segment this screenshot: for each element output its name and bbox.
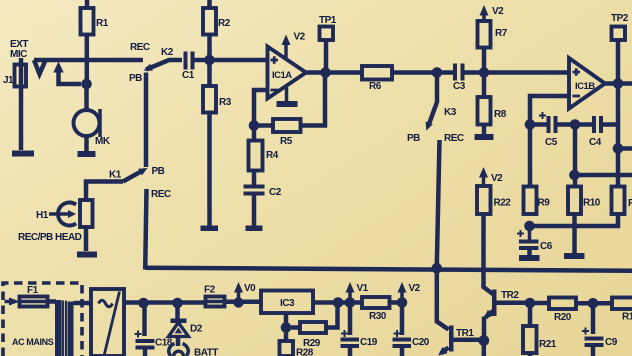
transistor TR1 (437, 268, 479, 356)
svg-text:IC1A: IC1A (272, 70, 292, 81)
svg-text:MK: MK (95, 136, 111, 147)
wire: IC3 adj pin down (284, 313, 289, 328)
svg-text:R10: R10 (583, 198, 601, 209)
wire: junction to C5 (530, 122, 547, 127)
svg-text:PB: PB (129, 73, 142, 84)
node: C5 left junction (525, 119, 536, 130)
node: IC1B output (613, 78, 624, 89)
wire: rectifier output to F2 (124, 300, 206, 305)
capacitor C4 (589, 116, 603, 148)
node: feedback node (249, 120, 260, 131)
wire: R2 bottom lead (207, 35, 212, 61)
wire: R7 to signal line (482, 48, 487, 73)
resistor R19 (612, 298, 632, 323)
wire: K2 PB contact drop to K1 PB (144, 73, 149, 168)
node: V2 (397, 297, 408, 308)
resistor R7 (478, 21, 508, 48)
resistor R8 (478, 97, 507, 125)
power arrow V2 at IC1A (282, 32, 306, 59)
resistor R5 (273, 119, 301, 147)
ground: C6 (519, 255, 540, 261)
node: D2 junction (172, 298, 183, 309)
resistor R3 (203, 86, 232, 113)
svg-text:REC: REC (130, 42, 150, 53)
svg-text:AC MAINS: AC MAINS (12, 337, 54, 347)
node: IC1A output (320, 67, 331, 78)
power arrow V2 at R22 (479, 167, 503, 186)
transformer T1 (55, 300, 74, 356)
test point TP1 (319, 15, 337, 40)
wire: R8 to ground (482, 125, 487, 135)
AC mains enclosure (dashed) (3, 283, 82, 356)
wire: C4 C5 junction down to R10 (573, 125, 578, 187)
capacitor C19 (341, 303, 378, 356)
svg-text:R28: R28 (296, 348, 314, 356)
resistor R21 (523, 326, 557, 356)
svg-text:V2: V2 (491, 173, 503, 184)
wire: R10 to ground (572, 214, 577, 253)
wire: head top to K1 (86, 182, 123, 201)
resistor R1 (81, 8, 109, 35)
ground: head (77, 252, 97, 258)
svg-text:PB: PB (407, 133, 420, 144)
voltage regulator IC3 (261, 291, 313, 314)
svg-text:R22: R22 (494, 198, 512, 209)
svg-text:R9: R9 (538, 198, 551, 209)
capacitor C9 (582, 303, 618, 356)
svg-text:V2: V2 (294, 32, 306, 43)
wire: IC1B output down to R11 (616, 84, 621, 187)
wire: R2 top lead (207, 0, 212, 8)
svg-text:V2: V2 (492, 6, 504, 17)
svg-text:V1: V1 (357, 283, 369, 294)
wire: R10 node to right edge (575, 173, 632, 178)
wire: R6 to C3 (392, 70, 453, 75)
svg-text:F1: F1 (27, 285, 39, 296)
resistor R30 (350, 297, 402, 322)
node: R29 R28 junction (281, 322, 292, 333)
node: C5 C4 junction (570, 119, 581, 130)
wire: IC3 output (313, 300, 350, 305)
resistor R29 (286, 303, 338, 349)
wire: emitter junction to bottom (482, 341, 487, 356)
wire: K3 REC contact to bus (437, 140, 440, 266)
wire: C2 to ground (252, 196, 257, 227)
svg-text:R21: R21 (539, 339, 557, 350)
wire: F1 to transformer (48, 299, 57, 304)
power arrow V2 at rail (398, 282, 421, 299)
resistor R11 (612, 187, 632, 215)
wire: node to IC1A noninverting input (210, 58, 268, 63)
resistor R4 (249, 141, 279, 171)
svg-text:TP1: TP1 (319, 15, 337, 26)
capacitor C3 (453, 64, 466, 93)
diode D2 (169, 303, 203, 346)
svg-text:REC: REC (444, 133, 464, 144)
svg-text:TR1: TR1 (456, 328, 474, 339)
svg-text:MIC: MIC (10, 49, 27, 60)
op-amp IC1A (268, 47, 307, 99)
microphone MK (74, 109, 111, 147)
svg-text:H1: H1 (36, 210, 49, 221)
wire: junction to microphone (84, 84, 89, 110)
capacitor C1 (182, 52, 195, 82)
wire: C4 to output branch (603, 122, 618, 127)
svg-text:IC1B: IC1B (575, 81, 595, 92)
wire: IC1B output line (605, 81, 632, 86)
svg-text:C2: C2 (269, 187, 282, 198)
wire: mic input line (34, 58, 143, 63)
node: TR1 TR2 emitter junction (478, 335, 489, 346)
bridge rectifier (91, 289, 124, 356)
transistor TR2 (484, 287, 520, 341)
ground: jack J1 (12, 151, 34, 157)
jack switch arrow (59, 71, 82, 84)
svg-text:K2: K2 (161, 47, 174, 58)
mains input arrow (5, 298, 21, 306)
wire: C6 to ground (527, 250, 532, 255)
node: V1 rail left (333, 297, 344, 308)
record playback head H1 (18, 200, 93, 243)
wire: TP1 lead (324, 40, 329, 73)
wire: R1 top lead (85, 0, 90, 8)
svg-text:R3: R3 (219, 97, 232, 108)
svg-text:C6: C6 (540, 241, 553, 252)
resistor R6 (362, 66, 392, 92)
capacitor C2 (244, 185, 282, 199)
ground: R10 (564, 253, 585, 259)
resistor R10 (568, 187, 601, 215)
svg-text:R11: R11 (628, 198, 632, 209)
capacitor C18 (135, 303, 173, 356)
svg-text:C4: C4 (589, 137, 602, 148)
fuse F2 (204, 285, 225, 307)
power arrow V2 at R7 (480, 5, 505, 21)
power arrow V0 (234, 282, 256, 299)
wire: node to R3 (207, 60, 212, 86)
svg-text:C1: C1 (182, 70, 195, 81)
label EXT MIC (10, 39, 28, 60)
svg-text:R2: R2 (218, 18, 231, 29)
node: K3 tap (432, 67, 443, 78)
svg-text:REC: REC (151, 189, 171, 200)
svg-text:C9: C9 (605, 337, 618, 348)
wire: feedback node to R5 (254, 123, 273, 128)
node: TR2 base node (525, 298, 536, 309)
ground: C2 (246, 226, 263, 232)
node: C18 junction (138, 298, 149, 309)
wire: C1 to input node (195, 58, 211, 63)
node: output tap (613, 143, 624, 154)
wire: microphone to ground (84, 136, 89, 151)
wire: TR2 base (497, 301, 531, 306)
svg-text:BATT: BATT (194, 348, 218, 356)
wire: R3 to ground (207, 113, 212, 227)
svg-text:K3: K3 (444, 107, 457, 118)
svg-text:R8: R8 (494, 109, 507, 120)
wire: IC1A inverting input to feedback node (254, 90, 268, 121)
wire: IC1B inverting input to C5 branch (530, 96, 569, 187)
ground: microphone (78, 151, 96, 157)
svg-text:R7: R7 (495, 28, 508, 39)
svg-text:R4: R4 (266, 150, 279, 161)
svg-text:R6: R6 (369, 81, 382, 92)
wire: K1 REC contact down and main bus (145, 189, 146, 270)
node: C9 junction (588, 298, 599, 309)
svg-text:F2: F2 (204, 285, 216, 296)
node: K3 bus junction (432, 263, 443, 274)
node: V0 (233, 297, 243, 307)
head arrow (49, 210, 76, 218)
svg-text:TR2: TR2 (501, 290, 519, 301)
switch K1 (109, 166, 171, 200)
svg-text:C5: C5 (545, 137, 558, 148)
node: V1 (345, 297, 356, 308)
wire: R22 to TR2 collector (481, 214, 486, 289)
jack J1 (3, 58, 46, 150)
svg-text:R19: R19 (622, 312, 632, 323)
wire: base node down to R21 (528, 303, 533, 326)
node: IC1A input node (204, 55, 215, 66)
capacitor C6 (517, 226, 553, 252)
wire: IC1A output line (306, 70, 362, 75)
ground: IC1A (277, 86, 298, 107)
wire: base node to R20 (530, 301, 549, 306)
wire: R1 bottom lead down through mic line (85, 35, 90, 85)
svg-text:R30: R30 (369, 311, 387, 322)
capacitor C5 (539, 112, 558, 148)
switch K2 (129, 47, 182, 84)
op-amp IC1B (569, 58, 605, 109)
svg-text:TP2: TP2 (611, 13, 629, 24)
ground: R8 (475, 134, 494, 140)
wire: R4 to C2 (252, 171, 257, 185)
power arrow V1 (346, 282, 369, 299)
resistor R20 (549, 298, 576, 324)
svg-text:C3: C3 (453, 81, 466, 92)
capacitor C20 (393, 303, 430, 356)
resistor R22 (477, 186, 511, 214)
wire: transformer secondary to rectifier (74, 301, 93, 306)
test point TP2 (611, 13, 629, 40)
battery BATT (169, 344, 219, 356)
svg-text:PB: PB (152, 166, 165, 177)
svg-text:V2: V2 (409, 283, 421, 294)
svg-text:R20: R20 (554, 312, 572, 323)
svg-text:R5: R5 (280, 136, 293, 147)
resistor R2 (203, 8, 231, 35)
ground: R3 (201, 226, 219, 232)
node: mic junction (81, 79, 92, 90)
node: R10 top junction (569, 170, 580, 181)
wire: F2 to V0 node (225, 300, 262, 305)
wire: R5 to IC1A output (301, 73, 326, 126)
svg-text:R1: R1 (96, 18, 109, 29)
wire: C3 to IC1B noninverting input (465, 70, 570, 75)
svg-text:J1: J1 (3, 75, 14, 86)
wire: output tap to right edge (618, 146, 632, 151)
wire: node to R4 (252, 121, 257, 141)
wire: IC3 adj to R28 (284, 328, 289, 342)
svg-text:REC/PB HEAD: REC/PB HEAD (18, 232, 82, 243)
wire: node to R8 (482, 73, 487, 98)
wire: C5 to C4 (558, 122, 593, 127)
switch K3 (407, 75, 464, 144)
wire: TP2 lead (616, 40, 621, 84)
svg-text:C19: C19 (360, 337, 378, 348)
svg-text:V0: V0 (244, 283, 256, 294)
resistor R28 (280, 341, 314, 356)
node: R9 bottom junction (524, 221, 535, 232)
svg-text:C20: C20 (412, 337, 430, 348)
resistor R9 (524, 187, 551, 215)
wire: R20 to C9 node (576, 301, 612, 306)
svg-text:IC3: IC3 (280, 298, 295, 309)
svg-text:K1: K1 (109, 170, 122, 181)
node: R7 R8 junction (479, 67, 490, 78)
wire: head bottom to ground (84, 227, 89, 251)
wire: R9 bottom to R11 bottom (530, 214, 619, 226)
fuse F1 (20, 285, 48, 307)
svg-text:D2: D2 (190, 324, 203, 335)
